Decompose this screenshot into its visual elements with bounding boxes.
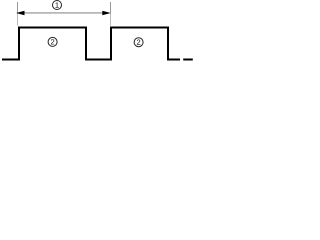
continuation dash: [183, 59, 193, 61]
waveform trace: baseline, pulse 1, low, pulse 2, low: [2, 28, 180, 60]
dimension line (period): [20, 12, 108, 14]
right arrowhead: [102, 11, 110, 15]
extension line at second rising edge: [110, 2, 112, 14]
label 2 circle (first pulse): [48, 37, 57, 46]
extension line at second rising edge (lower part): [110, 14, 112, 26]
label 2 digit (second pulse): [137, 39, 140, 44]
label 2 digit (first pulse): [51, 39, 54, 44]
label 1 digit: [55, 2, 58, 7]
extension line at first rising edge: [17, 2, 19, 14]
left arrowhead: [16, 11, 24, 15]
extension line at first rising edge (lower part): [17, 14, 19, 26]
label 1 circle: [53, 1, 62, 10]
label 2 circle (second pulse): [134, 38, 143, 47]
